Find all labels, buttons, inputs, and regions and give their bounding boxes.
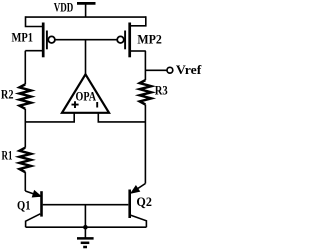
svg-text:R3: R3	[155, 83, 168, 98]
VDD power bar	[77, 2, 96, 5]
wire left column MP1 drain to R2	[24, 51, 26, 85]
ground	[77, 227, 94, 247]
resistor R3	[140, 80, 152, 104]
wire R1 down to Q1 emitter	[24, 172, 26, 191]
op-amp U1 OPA triangle	[62, 74, 109, 113]
wire base line down to ground rail	[84, 205, 86, 228]
transistor Q1	[25, 191, 41, 228]
svg-text:MP1: MP1	[12, 29, 34, 44]
svg-text:Q2: Q2	[136, 194, 152, 209]
wire gate drop to op-amp output	[85, 40, 87, 75]
node junction dot	[83, 225, 88, 230]
transistor MP2	[117, 23, 130, 58]
wire VDD drop	[85, 3, 87, 17]
wire gate line between MP1 and MP2	[55, 39, 117, 41]
svg-text:R2: R2	[1, 87, 14, 102]
wire right column MP2 drain down	[144, 51, 146, 80]
op-amp minus mark	[96, 102, 98, 108]
wire R3 down to Q2 emitter	[144, 105, 146, 184]
svg-text:MP2: MP2	[137, 31, 162, 46]
wire R2 to R1	[24, 109, 26, 148]
resistor R2	[20, 84, 32, 108]
svg-text:R1: R1	[2, 148, 13, 163]
wire base line Q1-Q2	[43, 204, 129, 206]
transistor Q2	[130, 184, 147, 228]
wire top rail	[26, 16, 146, 18]
wire MP2 drain lead	[130, 50, 145, 52]
node Vref terminal	[167, 67, 173, 73]
wire rail left end down to MP1 source	[26, 16, 43, 26]
svg-text:OPA: OPA	[76, 88, 97, 103]
svg-text:VDD: VDD	[54, 0, 74, 15]
wire op-amp plus input stub	[25, 113, 74, 122]
transistor MP1	[43, 23, 55, 58]
svg-text:Vref: Vref	[176, 62, 202, 77]
resistor R1	[20, 148, 32, 172]
wire MP1 drain lead	[25, 50, 42, 52]
wire op-amp minus input stub	[98, 113, 145, 122]
wire Vref tap	[145, 69, 167, 71]
wire bottom rail	[26, 226, 147, 228]
wire rail right end down to MP2 source	[130, 16, 145, 26]
svg-text:Q1: Q1	[17, 198, 31, 213]
op-amp plus mark	[72, 101, 79, 108]
